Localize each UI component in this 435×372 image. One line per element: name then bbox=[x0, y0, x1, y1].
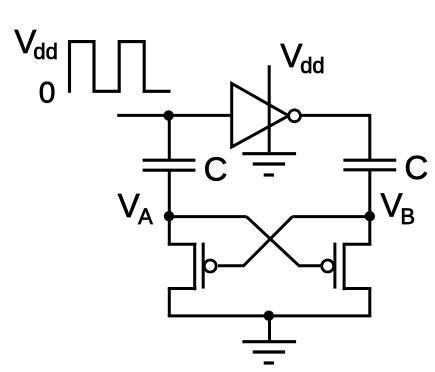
svg-text:A: A bbox=[138, 204, 153, 229]
svg-text:V: V bbox=[118, 187, 140, 224]
svg-text:C: C bbox=[404, 149, 428, 186]
node A junction bbox=[164, 211, 174, 221]
svg-text:C: C bbox=[204, 150, 228, 187]
svg-text:B: B bbox=[400, 204, 415, 229]
op-amp U1 inverter triangle bbox=[232, 84, 289, 148]
ground (inverter) bbox=[242, 154, 296, 175]
inverter output bubble bbox=[289, 110, 301, 122]
wire cross-couple A to gate of Q2 bbox=[246, 217, 321, 266]
wire right capacitor to node B bbox=[368, 170, 371, 217]
wire node A to Q1 source bbox=[168, 216, 171, 246]
transistor Q1 (left PMOS) bbox=[168, 243, 216, 291]
ground (bottom) bbox=[242, 342, 296, 363]
svg-text:V: V bbox=[280, 37, 302, 74]
wire left capacitor to node A bbox=[168, 170, 171, 216]
wire Q1 drain down bbox=[168, 288, 171, 316]
svg-text:0: 0 bbox=[39, 77, 56, 110]
capacitor C2 right bbox=[343, 160, 396, 170]
wire Q2 drain down bbox=[368, 288, 371, 316]
node ground junction bbox=[264, 311, 274, 321]
wire rail to ground bbox=[268, 316, 271, 342]
wire inverter output bbox=[301, 115, 369, 161]
transistor Q2 (right PMOS) bbox=[322, 243, 372, 291]
wire input horizontal bbox=[117, 114, 232, 117]
svg-text:V: V bbox=[381, 186, 403, 223]
node input junction bbox=[163, 110, 173, 120]
svg-text:dd: dd bbox=[300, 53, 324, 78]
inverter Vdd power line bbox=[268, 65, 271, 152]
wire cross-couple B to gate of Q1 bbox=[218, 217, 293, 266]
wire node B horizontal bbox=[293, 215, 370, 218]
wire node A horizontal bbox=[168, 215, 246, 218]
clock waveform bbox=[70, 42, 171, 93]
node B junction bbox=[365, 211, 375, 221]
capacitor C1 left bbox=[143, 160, 196, 170]
svg-text:dd: dd bbox=[33, 39, 57, 64]
wire bottom rail bbox=[168, 314, 371, 317]
wire input to left capacitor bbox=[168, 115, 171, 161]
wire node B to Q2 source bbox=[368, 216, 371, 246]
